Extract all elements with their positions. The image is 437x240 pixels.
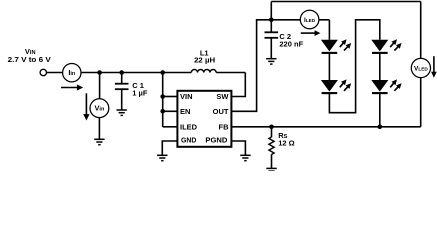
- svg-text:ILED: ILED: [180, 123, 198, 132]
- svg-text:FB: FB: [219, 123, 230, 132]
- svg-text:2.7 V to 6 V: 2.7 V to 6 V: [8, 57, 52, 64]
- svg-text:VIN: VIN: [180, 92, 193, 101]
- svg-text:EN: EN: [180, 107, 190, 116]
- svg-text:1 µF: 1 µF: [132, 89, 148, 98]
- svg-text:12 Ω: 12 Ω: [278, 138, 294, 147]
- svg-text:OUT: OUT: [213, 107, 229, 116]
- svg-text:GND: GND: [181, 136, 197, 145]
- svg-text:220 nF: 220 nF: [279, 40, 303, 49]
- svg-text:VLED: VLED: [414, 65, 428, 72]
- svg-text:PGND: PGND: [205, 136, 228, 145]
- svg-text:ILED: ILED: [304, 17, 316, 24]
- svg-text:SW: SW: [216, 92, 229, 101]
- svg-text:22 µH: 22 µH: [194, 55, 215, 64]
